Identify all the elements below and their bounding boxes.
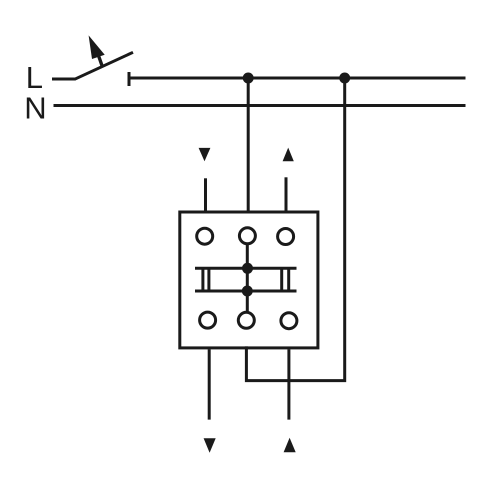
terminal 5 bottom-middle xyxy=(238,312,254,328)
terminal 4 bottom-left xyxy=(200,312,216,328)
mechanism interlock tick left outer xyxy=(201,267,204,292)
junction on L bus left xyxy=(243,73,254,84)
arrow up (raise blind) top xyxy=(283,148,294,162)
wire stub top-left xyxy=(204,178,207,210)
terminal 6 bottom-right xyxy=(281,313,297,329)
wire stub top-right xyxy=(285,177,288,210)
mechanism interlock tick left inner xyxy=(207,267,210,292)
junction on L bus right xyxy=(339,73,350,84)
wire stub bottom-right xyxy=(287,349,290,419)
wire N bus xyxy=(54,104,466,107)
terminal 2 top-middle xyxy=(239,228,255,244)
mechanism junction lower xyxy=(242,286,253,297)
switch S1 blade xyxy=(75,52,134,79)
switch S1 manual-operation arrow xyxy=(89,35,105,66)
terminal 1 top-left xyxy=(197,228,213,244)
wire L feed xyxy=(52,78,75,81)
terminal 3 top-right xyxy=(278,229,294,245)
svg-text:N: N xyxy=(24,90,46,125)
arrow down (lower blind) bottom xyxy=(204,438,216,452)
arrow down (lower blind) top xyxy=(199,148,211,161)
mechanism interlock tick right inner xyxy=(280,267,283,292)
switch S1 fixed contact xyxy=(128,72,131,86)
mechanism junction upper xyxy=(242,263,253,274)
wire stub bottom-left xyxy=(208,349,211,419)
wire L bus xyxy=(129,77,466,80)
mechanism interlock tick right outer xyxy=(287,267,290,292)
wire return loop xyxy=(246,78,344,381)
mechanism lower contact bar xyxy=(195,290,297,293)
shutter switch box outline xyxy=(180,212,318,348)
mechanism upper contact bar xyxy=(195,267,297,270)
mechanism centre conductor xyxy=(246,245,249,311)
wire L drop to box xyxy=(247,78,250,211)
arrow up (raise blind) bottom xyxy=(284,438,296,453)
